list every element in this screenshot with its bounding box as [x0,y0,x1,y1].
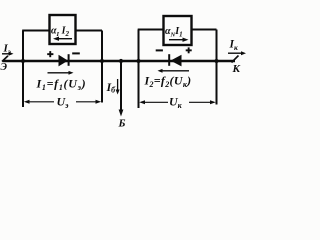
terminal К slash [232,56,239,63]
svg-text:Б: Б [118,118,126,130]
current arrow I_к [228,51,246,55]
terminal Э slash [2,56,8,62]
current arrow I_э [2,52,14,56]
arrow in right box (points right) [169,38,189,42]
current source box α_I I2 [50,15,76,44]
wire: left branch vertical x=23 [22,31,24,108]
current source box α_N I1 [164,16,192,45]
wire: main horizontal line E to K [3,60,236,62]
svg-text:Э: Э [1,62,8,73]
dimension U_к double arrow [139,100,215,104]
wire: right box right connection [192,29,217,31]
svg-text:К: К [232,63,241,75]
label − (left diode) [72,52,80,54]
node dot (121,61) [119,59,123,63]
label + (right diode) [186,47,192,53]
current arrow I1 (above label, points right) [48,71,74,75]
wire: vertical x=216.5 (box branch + U_к right bar) [216,30,218,105]
dimension U_э double arrow [24,100,101,104]
arrowhead to Б [119,110,124,117]
node dot (102,61) [100,59,104,63]
wire: base terminal Б vertical x=121 [120,61,122,111]
wire: left box right connection [76,30,103,32]
diode VD1 (left, anode left) [59,54,70,66]
wire: vertical x=102 (box branch + U_э right bar) [101,31,103,103]
arrow in left box (points left) [53,37,72,41]
node dot (216.5,61) [214,59,218,63]
diode VD2 (right, anode right) [168,54,181,66]
wire: right box left vertical x=138.5 [138,30,140,109]
wire: left box left connection [22,30,49,32]
wire: right box left connection [138,29,164,31]
current arrow I2 (above label, points left) [158,69,190,73]
current arrow I_б (points down) [116,79,120,95]
label + (left diode) [47,51,53,57]
node dot (23,61) [21,59,25,63]
node dot (138.5,61) [136,59,140,63]
label − (right diode) [156,49,163,51]
